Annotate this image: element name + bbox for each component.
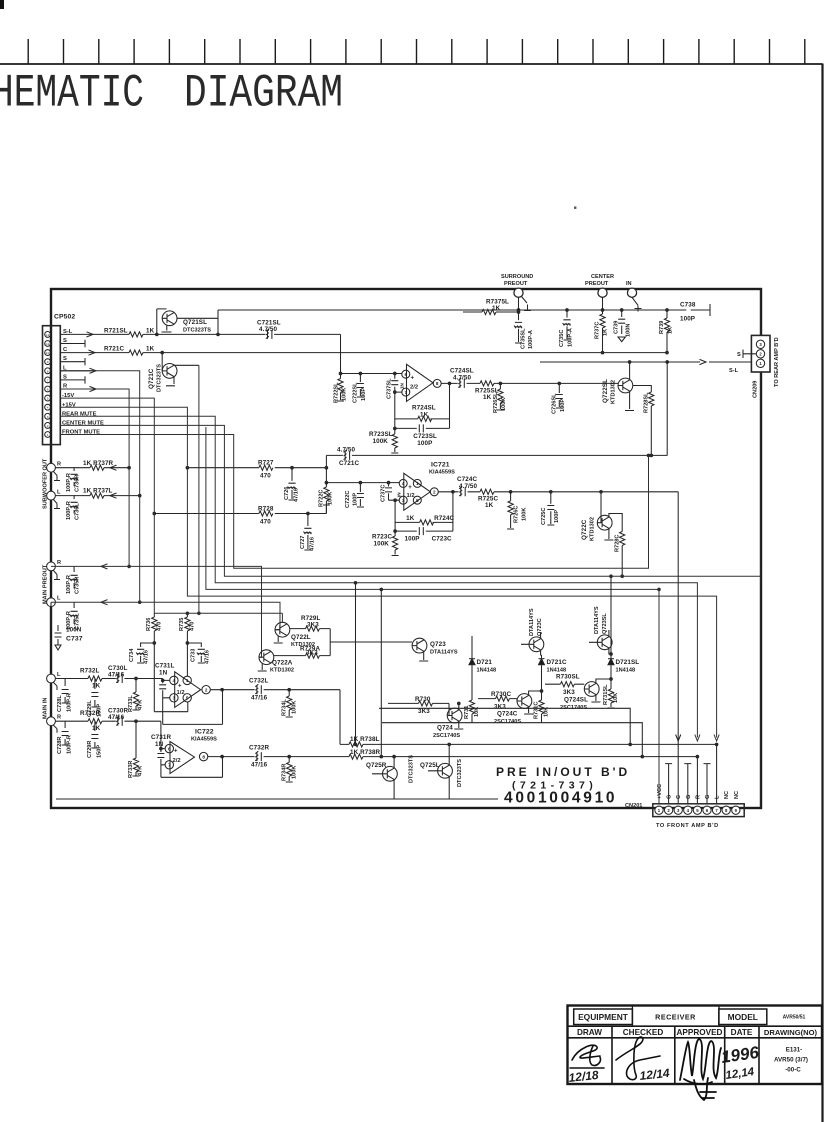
- svg-text:1N: 1N: [400, 382, 405, 389]
- svg-text:Q721SL: Q721SL: [183, 319, 207, 326]
- transistor Q724C: [494, 690, 543, 725]
- svg-text:C729R: C729R: [87, 741, 93, 758]
- svg-text:CHECKED: CHECKED: [623, 1028, 664, 1037]
- svg-text:CN201: CN201: [625, 803, 642, 809]
- svg-text:100P-A: 100P-A: [568, 328, 574, 347]
- wire main in R row: [135, 720, 165, 750]
- svg-text:G: G: [667, 795, 673, 799]
- wire main preout L: [51, 601, 280, 630]
- svg-text:100P-R: 100P-R: [66, 501, 72, 520]
- wire S row terminators: [60, 340, 85, 384]
- svg-text:10: 10: [46, 351, 50, 355]
- terminal center preout: [585, 274, 614, 298]
- wire filler G lines: [379, 708, 644, 758]
- svg-text:100K: 100K: [328, 492, 334, 505]
- svg-text:L: L: [57, 596, 61, 602]
- svg-text:12/18: 12/18: [568, 1068, 600, 1085]
- svg-text:R728SL: R728SL: [644, 392, 650, 413]
- svg-text:5: 5: [186, 696, 189, 701]
- terminal subwoofer R: [47, 462, 61, 481]
- svg-text:DTC323TS: DTC323TS: [183, 328, 211, 334]
- svg-text:C728R: C728R: [57, 737, 63, 754]
- svg-text:AVR50 (3/7): AVR50 (3/7): [774, 1057, 808, 1064]
- svg-text:47/16: 47/16: [251, 695, 268, 702]
- svg-text:3K3: 3K3: [563, 689, 575, 696]
- capacitor C721C: [326, 446, 667, 482]
- svg-text:4.7/50: 4.7/50: [459, 483, 478, 490]
- svg-text:R722C: R722C: [319, 490, 325, 507]
- svg-text:100K: 100K: [292, 701, 298, 714]
- svg-text:DTC323TS: DTC323TS: [157, 364, 163, 392]
- svg-text:3K3: 3K3: [306, 650, 318, 657]
- wire main in L row: [135, 677, 170, 682]
- svg-text:1K: 1K: [485, 502, 494, 509]
- resistor R738L: [340, 736, 718, 747]
- svg-text:C734: C734: [129, 648, 135, 662]
- resistor R725C: [478, 489, 498, 509]
- svg-text:12/14: 12/14: [639, 1066, 671, 1083]
- svg-text:100K: 100K: [373, 438, 389, 445]
- svg-text:470: 470: [190, 622, 196, 631]
- svg-text:R728C: R728C: [615, 535, 621, 552]
- diode D721SL: [608, 576, 639, 689]
- svg-text:47K: 47K: [138, 700, 144, 710]
- svg-text:S-L: S-L: [729, 368, 739, 374]
- resistor R728SL: [633, 386, 654, 456]
- resistor R723C: [372, 530, 399, 556]
- svg-text:EQUIPMENT: EQUIPMENT: [578, 1012, 629, 1022]
- resistor R729L: [290, 615, 412, 656]
- svg-text:100N: 100N: [66, 627, 82, 634]
- svg-text:Q721C: Q721C: [148, 368, 155, 389]
- capacitor C726SL: [552, 382, 567, 414]
- svg-text:DTA114YS: DTA114YS: [529, 608, 535, 636]
- svg-text:1K: 1K: [603, 329, 609, 336]
- svg-text:R731SL: R731SL: [603, 684, 609, 705]
- svg-text:Q724: Q724: [437, 725, 453, 732]
- wire pin5 drop: [696, 757, 698, 804]
- capacitor C731L: [155, 662, 174, 698]
- resistor R738R: [345, 749, 699, 759]
- resistor R7375L: [463, 299, 520, 315]
- svg-text:TO REAR AMP B'D: TO REAR AMP B'D: [774, 337, 780, 387]
- svg-text:7: 7: [47, 378, 49, 382]
- svg-text:Q723C: Q723C: [537, 618, 543, 636]
- svg-text:47/16: 47/16: [294, 488, 300, 502]
- svg-text:C735C: C735C: [559, 330, 565, 347]
- page title: [0, 68, 343, 120]
- svg-text:12,14: 12,14: [725, 1066, 756, 1082]
- svg-text:4: 4: [47, 406, 49, 410]
- capacitor C724C: [457, 476, 478, 496]
- svg-text:100P: 100P: [405, 536, 420, 543]
- svg-text:R723SL: R723SL: [369, 431, 393, 438]
- terminal main in L: [47, 672, 61, 690]
- capacitor C737: [51, 602, 83, 650]
- svg-text:DRAW: DRAW: [577, 1028, 602, 1037]
- resistor R739: [659, 310, 674, 354]
- svg-text:470: 470: [260, 473, 271, 480]
- resistor R723SL: [369, 427, 398, 453]
- wire center mute bus: [60, 425, 760, 577]
- svg-text:1K R738R: 1K R738R: [350, 749, 381, 756]
- wire rear mute bus: [60, 416, 700, 741]
- svg-text:8: 8: [436, 381, 439, 386]
- svg-text:R731C: R731C: [534, 702, 540, 719]
- capacitor C732R: [249, 745, 269, 769]
- svg-text:4001004910: 4001004910: [504, 790, 617, 807]
- capacitor C739: [614, 310, 632, 342]
- svg-text:100K: 100K: [501, 398, 507, 411]
- svg-text:NC: NC: [724, 791, 730, 799]
- resistor R731SL: [603, 684, 619, 708]
- resistor R724SL feedback: [394, 382, 451, 421]
- capacitor C733: [186, 642, 210, 664]
- svg-text:7: 7: [168, 763, 171, 768]
- transistor Q722C: [581, 492, 613, 541]
- svg-text:DIAGRAM: DIAGRAM: [184, 68, 343, 120]
- svg-text:DTA114YS: DTA114YS: [430, 649, 458, 655]
- node C arrow: [60, 350, 95, 355]
- ruler: [0, 39, 823, 64]
- capacitor C722C: [345, 481, 364, 508]
- svg-text:2: 2: [205, 688, 208, 693]
- wire op-amp input row: [341, 373, 402, 375]
- capacitor C734: [129, 642, 156, 664]
- svg-text:R723C: R723C: [372, 534, 392, 541]
- svg-text:C723C: C723C: [432, 536, 452, 543]
- svg-text:Q722A: Q722A: [272, 660, 293, 667]
- svg-text:+VCC: +VCC: [657, 784, 663, 799]
- wire bottom rail: [56, 798, 498, 800]
- svg-text:8: 8: [202, 754, 205, 759]
- capacitor C738: [680, 302, 696, 323]
- svg-text:100P: 100P: [680, 316, 695, 323]
- svg-text:470: 470: [157, 622, 163, 631]
- wire IC722 1/2 output row: [210, 688, 340, 744]
- svg-text:5: 5: [47, 397, 49, 401]
- svg-text:Q723SL: Q723SL: [602, 613, 608, 634]
- svg-text:6: 6: [168, 746, 171, 751]
- op-amp 2/2: [400, 364, 442, 401]
- svg-text:470: 470: [260, 519, 271, 526]
- svg-text:PREOUT: PREOUT: [585, 281, 609, 287]
- svg-text:1K: 1K: [406, 515, 415, 522]
- transistor Q724SL: [560, 678, 612, 711]
- svg-text:8: 8: [47, 369, 49, 373]
- wire IC722 2/2 output row: [208, 755, 345, 758]
- svg-text:C728L: C728L: [57, 695, 63, 712]
- capacitor C728L: [57, 679, 73, 713]
- svg-text:C738: C738: [680, 302, 696, 309]
- svg-text:1: 1: [186, 678, 189, 683]
- svg-text:KTD1302: KTD1302: [590, 517, 596, 541]
- svg-text:R721SL: R721SL: [104, 327, 128, 334]
- resistor R728C: [609, 514, 625, 577]
- svg-text:+: +: [411, 376, 415, 382]
- svg-text:AVR50/51: AVR50/51: [783, 1015, 806, 1021]
- transistor Q722SL: [602, 361, 634, 411]
- svg-text:1K: 1K: [146, 327, 155, 334]
- svg-text:47/16: 47/16: [108, 672, 125, 679]
- svg-text:+: +: [178, 683, 182, 689]
- svg-text:100P: 100P: [560, 399, 566, 412]
- svg-text:R730SL: R730SL: [556, 674, 580, 681]
- svg-text:CP502: CP502: [54, 314, 75, 321]
- svg-text:R: R: [57, 560, 61, 566]
- svg-text:100K: 100K: [342, 388, 348, 401]
- svg-text:1N4148: 1N4148: [547, 667, 567, 673]
- capacitor C732L: [249, 678, 268, 702]
- svg-text:R732R: R732R: [80, 710, 100, 717]
- svg-text:R734R: R734R: [282, 764, 288, 781]
- node L arrow: [60, 368, 96, 373]
- resistor R721C: [104, 346, 155, 356]
- resistor R729A: [274, 646, 330, 659]
- svg-text:3: 3: [402, 498, 405, 503]
- svg-text:9: 9: [47, 360, 49, 364]
- svg-text:C723SL: C723SL: [413, 433, 437, 440]
- svg-text:D721C: D721C: [547, 659, 567, 666]
- node S-L arrow: [60, 332, 93, 337]
- wire S-L out: [540, 359, 756, 364]
- svg-text:MAIN IN: MAIN IN: [43, 698, 49, 719]
- svg-text:R724SL: R724SL: [412, 405, 436, 412]
- svg-text:1996: 1996: [720, 1043, 761, 1067]
- svg-text:100P: 100P: [353, 493, 359, 506]
- svg-text:DTC323TS: DTC323TS: [409, 755, 415, 783]
- resistor R732R: [55, 710, 112, 732]
- svg-text:C731R: C731R: [151, 734, 171, 741]
- svg-text:47/16: 47/16: [251, 762, 268, 769]
- svg-text:1/2: 1/2: [177, 690, 185, 696]
- resistor R737C: [595, 297, 609, 354]
- svg-text:100P-R: 100P-R: [66, 575, 72, 594]
- wire main preout R: [51, 565, 262, 657]
- svg-text:C: C: [676, 795, 682, 799]
- wire C row: [95, 352, 667, 354]
- right page border: [821, 64, 823, 1122]
- transistor Q722A: [258, 650, 294, 674]
- svg-text:Q722L: Q722L: [291, 634, 311, 641]
- svg-text:100P-R: 100P-R: [67, 735, 73, 754]
- capacitor C735L: [66, 602, 81, 630]
- resistor R735: [179, 613, 196, 676]
- svg-text:1K: 1K: [483, 394, 492, 401]
- resistor R726SL: [493, 382, 507, 413]
- svg-text:1N4148: 1N4148: [477, 667, 497, 673]
- capacitor C728R: [57, 721, 73, 754]
- svg-text:47/16: 47/16: [309, 537, 315, 551]
- svg-text:100P-R: 100P-R: [66, 473, 72, 492]
- resistor R736: [146, 613, 163, 711]
- capacitor C730R: [108, 708, 136, 726]
- svg-text:R727: R727: [258, 460, 274, 467]
- svg-text:R737C: R737C: [595, 322, 601, 339]
- capacitor C729R: [87, 721, 103, 758]
- svg-text:R736: R736: [146, 618, 152, 631]
- wire pin7 drop: [716, 744, 718, 803]
- resistor R733L: [128, 679, 144, 713]
- resistor R727: [186, 460, 328, 480]
- svg-text:-00-C: -00-C: [785, 1067, 801, 1074]
- svg-text:Q722SL: Q722SL: [602, 379, 609, 403]
- svg-text:R734L: R734L: [282, 699, 288, 716]
- resistor R724C feedback: [394, 491, 455, 532]
- svg-text:2SC1740S: 2SC1740S: [433, 733, 460, 739]
- svg-text:1K: 1K: [92, 683, 101, 690]
- resistor R731: [464, 700, 480, 723]
- svg-text:1: 1: [47, 433, 49, 437]
- capacitor C736L: [66, 496, 81, 520]
- svg-text:APPROVED: APPROVED: [677, 1028, 723, 1037]
- title block grid: [568, 1006, 823, 1085]
- svg-text:IN: IN: [397, 492, 402, 497]
- capacitor C736R: [66, 468, 81, 492]
- svg-text:R728: R728: [258, 506, 274, 513]
- svg-text:D721: D721: [477, 659, 493, 666]
- capacitor C731R: [151, 734, 171, 765]
- svg-text:C725C: C725C: [541, 508, 547, 525]
- wire feedback rects IC722 1/2: [154, 688, 223, 724]
- svg-text:47K: 47K: [138, 766, 144, 776]
- resistor R722SL: [334, 372, 348, 403]
- capacitor C737SL: [387, 372, 402, 399]
- svg-text:C726SL: C726SL: [552, 393, 558, 414]
- svg-text:C737C: C737C: [381, 485, 387, 502]
- transistor Q725L: [420, 743, 463, 799]
- svg-text:Q725R: Q725R: [366, 762, 387, 769]
- wire L bus: [60, 371, 139, 602]
- svg-text:100K: 100K: [374, 541, 390, 548]
- svg-text:2SC1740S: 2SC1740S: [494, 719, 521, 725]
- svg-text:R724C: R724C: [434, 515, 454, 522]
- svg-text:HEMATIC: HEMATIC: [0, 68, 144, 120]
- svg-text:MODEL: MODEL: [728, 1012, 758, 1022]
- svg-text:Q723: Q723: [430, 641, 446, 648]
- svg-text:1: 1: [416, 481, 419, 486]
- svg-text:C727: C727: [300, 536, 306, 549]
- signature date: [720, 1043, 761, 1082]
- svg-text:TO FRONT AMP B'D: TO FRONT AMP B'D: [656, 823, 719, 829]
- wire loop vertical: [666, 362, 668, 456]
- signature checked: [616, 1037, 671, 1083]
- capacitor C725C: [541, 491, 560, 526]
- terminal subwoofer L: [47, 489, 61, 508]
- schematic border: [51, 289, 761, 808]
- wire R bus: [60, 389, 129, 566]
- connector CP502: [43, 314, 76, 445]
- wire IC721 output row: [438, 491, 678, 745]
- svg-text:47/16: 47/16: [144, 650, 150, 664]
- svg-text:6: 6: [47, 388, 49, 392]
- wire front mute bus: [60, 435, 648, 569]
- svg-text:1K R738L: 1K R738L: [350, 736, 380, 743]
- svg-text:100P: 100P: [417, 440, 432, 447]
- transistor Q724: [433, 702, 463, 739]
- wire top rail: [218, 304, 710, 316]
- svg-text:DTC323TS: DTC323TS: [457, 759, 463, 787]
- resistor R737R: [55, 460, 130, 471]
- op-amp IC722 2/2: [165, 729, 217, 774]
- signature draw: [568, 1045, 604, 1085]
- resistor R737L: [55, 488, 141, 499]
- svg-text:150P: 150P: [97, 745, 103, 758]
- svg-text:12: 12: [46, 333, 50, 337]
- resistor R734R: [282, 757, 298, 782]
- capacitor C735R: [66, 566, 81, 594]
- svg-text:KTD1302: KTD1302: [270, 668, 294, 674]
- resistor R730SL: [545, 674, 584, 697]
- capacitor C723C: [395, 527, 453, 542]
- capacitor C726: [284, 468, 300, 502]
- connector CN209: [729, 289, 780, 808]
- diode D721: [469, 636, 496, 700]
- svg-text:47/16: 47/16: [108, 714, 125, 721]
- svg-text:G: G: [686, 795, 692, 799]
- svg-text:PRE IN/OUT B'D: PRE IN/OUT B'D: [496, 765, 630, 779]
- resistor R732L: [55, 668, 112, 690]
- svg-text:1K: 1K: [146, 346, 155, 353]
- transistor Q722L: [274, 622, 315, 648]
- wire +15V bus: [60, 407, 719, 741]
- terminal surround preout: [501, 274, 533, 311]
- CN201 pin labels: [657, 784, 740, 799]
- wire mute drops: [354, 582, 382, 758]
- svg-text:1K: 1K: [668, 327, 674, 334]
- scan speck: [574, 207, 576, 209]
- transistor Q723: [412, 638, 458, 661]
- svg-text:1K R737L: 1K R737L: [83, 488, 113, 495]
- svg-text:2/2: 2/2: [173, 758, 181, 764]
- wire feedback rect IC722 2/2: [161, 755, 224, 777]
- capacitor C724SL: [450, 368, 474, 388]
- svg-text:1K: 1K: [420, 412, 429, 419]
- svg-text:47/16: 47/16: [205, 650, 211, 664]
- CP502 row labels: [62, 329, 104, 436]
- svg-text:R726C: R726C: [514, 506, 520, 523]
- svg-text:C735R: C735R: [75, 577, 81, 594]
- svg-text:2: 2: [47, 424, 49, 428]
- svg-text:+: +: [408, 485, 412, 491]
- corner mark: [0, 0, 4, 9]
- svg-text:C739: C739: [614, 321, 620, 334]
- resistor R725SL: [475, 381, 499, 401]
- capacitor C722SL: [353, 372, 368, 403]
- resistor R733R: [128, 721, 144, 778]
- svg-text:4.7/50: 4.7/50: [259, 326, 278, 333]
- svg-text:KIA4559S: KIA4559S: [191, 737, 217, 743]
- CP502 pin circles 12..1: [45, 332, 51, 438]
- svg-text:6: 6: [405, 372, 408, 377]
- svg-text:2/2: 2/2: [410, 384, 418, 390]
- transistor Q723C: [521, 608, 544, 655]
- capacitor C729L: [87, 679, 103, 718]
- svg-text:Q724C: Q724C: [497, 711, 518, 718]
- svg-text:4.7/50: 4.7/50: [453, 374, 472, 381]
- svg-text:PREOUT: PREOUT: [504, 281, 528, 287]
- node R arrow: [60, 386, 96, 391]
- resistor R730C: [478, 691, 517, 711]
- svg-text:C732R: C732R: [249, 745, 269, 752]
- svg-text:11: 11: [46, 342, 49, 346]
- svg-text:CN209: CN209: [753, 381, 759, 398]
- wire op-amp SL output row: [441, 382, 618, 384]
- svg-text:2: 2: [433, 490, 436, 495]
- transistor Q723SL: [589, 606, 612, 655]
- svg-text:Q722C: Q722C: [581, 519, 588, 540]
- svg-text:Q725L: Q725L: [420, 762, 440, 769]
